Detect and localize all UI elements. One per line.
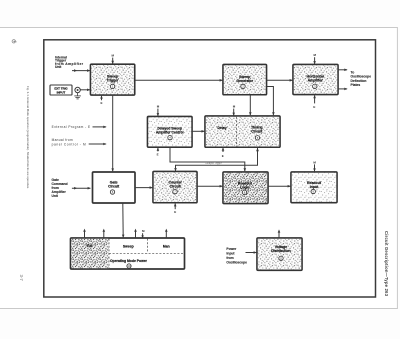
label: Power input from Oscilloscope xyxy=(226,247,247,264)
svg-text:Delayed Trigger: Delayed Trigger xyxy=(205,162,221,165)
node E below Horizontal Amplifier xyxy=(313,95,316,109)
wire: Gate Circuit down to Operating Mode Power xyxy=(122,203,125,238)
node M above Delayed Sweep Amplifier Control xyxy=(157,105,160,117)
registration mark top-left xyxy=(12,40,17,43)
svg-text:Unit: Unit xyxy=(55,65,62,69)
block: Counter Circuit (shaded) xyxy=(153,172,197,203)
left margin figure caption (rotated) xyxy=(26,86,30,189)
wire: internal trigger to Sweep Trigger xyxy=(72,69,90,72)
svg-text:input: input xyxy=(226,252,235,256)
node: power stub up 2 xyxy=(103,229,106,239)
wire: Voltage Distribution power up stub xyxy=(278,229,281,237)
svg-text:Sweep: Sweep xyxy=(123,244,134,248)
node M above Readout Input xyxy=(313,160,316,171)
label: External Program - E arrow xyxy=(52,125,107,129)
svg-text:3-7: 3-7 xyxy=(19,275,24,282)
wire: Readout Logic to Readout Input xyxy=(268,185,291,188)
wire: gate command to Gate Circuit xyxy=(72,187,91,190)
coax connector symbol xyxy=(75,87,80,92)
svg-text:Manual from: Manual from xyxy=(52,138,73,142)
label on wire xyxy=(205,162,221,165)
right margin header (rotated) xyxy=(384,231,389,297)
svg-text:Delay: Delay xyxy=(217,126,226,130)
svg-text:E: E xyxy=(313,105,315,109)
EXT TRIG INPUT connector box xyxy=(50,85,72,95)
block: Sweep Generator (shaded) xyxy=(223,65,267,95)
node E below Delay xyxy=(222,147,225,158)
node: power stub up 4 xyxy=(165,229,168,239)
svg-text:Oscilloscope: Oscilloscope xyxy=(226,260,247,264)
svg-text:Fig. 3-1. External Mode operat: Fig. 3-1. External Mode operation (progr… xyxy=(26,86,30,189)
block: Delayed Sweep Amplifier Control (shaded light) xyxy=(148,117,193,148)
block: Horizontal Amplifier (shaded) xyxy=(293,65,338,95)
svg-text:INPUT: INPUT xyxy=(57,90,66,94)
svg-text:Man: Man xyxy=(163,244,170,248)
node: power stub up 1 xyxy=(83,229,86,239)
wire: Counter Circuit to Readout Logic xyxy=(197,185,223,188)
svg-text:Amplifier: Amplifier xyxy=(308,78,324,82)
node E below Counter Circuit xyxy=(174,203,177,214)
wire: DSAC bottom to Readout Logic top xyxy=(170,148,246,172)
label: Manual from panel Control - M arrow xyxy=(52,138,107,146)
svg-text:E: E xyxy=(222,154,224,158)
node E below Sweep Trigger xyxy=(100,95,103,104)
block: Sweep Trigger (shaded) xyxy=(91,64,135,95)
wire: Gate Circuit to Counter Circuit xyxy=(135,186,153,189)
svg-text:Plates: Plates xyxy=(351,83,361,87)
svg-text:Logic: Logic xyxy=(240,185,249,189)
node E below DSAC xyxy=(157,148,160,157)
wire: Sweep Generator bottom down to Timing Circuit xyxy=(249,95,252,116)
page number 3-7 (rotated) xyxy=(19,275,24,282)
wire: power input to Voltage Distribution xyxy=(246,251,257,254)
block: Gate Circuit (unshaded) xyxy=(93,172,136,203)
svg-text:Circuit: Circuit xyxy=(108,184,120,188)
svg-text:Trigger: Trigger xyxy=(107,79,120,83)
block: Readout Input (shaded light) xyxy=(291,172,337,203)
label: Gate Command from Amplifier Unit xyxy=(52,178,68,198)
node M above Operating Mode Power xyxy=(141,229,145,238)
svg-text:Circuit: Circuit xyxy=(170,185,182,189)
svg-text:Power: Power xyxy=(226,247,237,251)
label: To Oscilloscope Deflection Plates xyxy=(351,70,372,87)
svg-text:Generator: Generator xyxy=(236,79,253,83)
svg-text:Operating Mode Power: Operating Mode Power xyxy=(110,259,148,263)
node: power stub up 3 xyxy=(134,229,137,239)
svg-text:E: E xyxy=(157,153,159,157)
wire: Horizontal Amplifier output upper to deflection plates xyxy=(338,69,348,72)
svg-text:E: E xyxy=(100,101,102,105)
wire: Sweep Trigger down to Gate Circuit xyxy=(111,96,114,172)
label: Internal Trigger from Amplifier Unit xyxy=(55,55,84,69)
wire: Sweep Generator right side down to Timing Circuit xyxy=(267,87,275,116)
wire: ext trig connector to Sweep Trigger xyxy=(80,89,90,92)
wire: Sweep Trigger to Sweep Generator xyxy=(135,79,223,82)
svg-text:Unit: Unit xyxy=(52,194,59,198)
svg-text:E: E xyxy=(174,210,176,214)
chassis ground symbol xyxy=(74,93,81,99)
diagram frame border xyxy=(44,40,376,297)
svg-text:Distribution: Distribution xyxy=(271,249,291,253)
node M above Horizontal Amplifier xyxy=(313,53,316,64)
wire: Sweep Generator to Horizontal Amplifier xyxy=(267,79,293,82)
block: Delay / Timing Circuit (shaded, dashed divider) xyxy=(205,116,280,147)
svg-text:Amplifier Control: Amplifier Control xyxy=(156,130,184,134)
block: Operating Mode Power composite (Ext cell shaded) xyxy=(71,238,185,269)
svg-text:Ext: Ext xyxy=(87,244,93,248)
wire: Counter Circuit top to Timing Circuit bottom xyxy=(174,148,259,172)
node M above Sweep Trigger xyxy=(111,54,114,64)
svg-text:Circuit Description—Type 263: Circuit Description—Type 263 xyxy=(384,231,389,297)
block: Voltage Distribution (shaded) xyxy=(257,238,302,270)
svg-text:panel Control - M: panel Control - M xyxy=(52,143,86,147)
svg-text:Circuit: Circuit xyxy=(251,129,263,133)
svg-text:from: from xyxy=(226,256,233,260)
wire: DSAC to Delay xyxy=(192,130,205,133)
svg-text:Input: Input xyxy=(310,185,319,189)
wire: Horizontal Amplifier output lower to deflection plates xyxy=(338,88,348,91)
block: Readout Logic (shaded dense) xyxy=(223,172,268,204)
node M above Delay block xyxy=(232,105,235,116)
svg-text:External Program - E: External Program - E xyxy=(52,125,91,129)
